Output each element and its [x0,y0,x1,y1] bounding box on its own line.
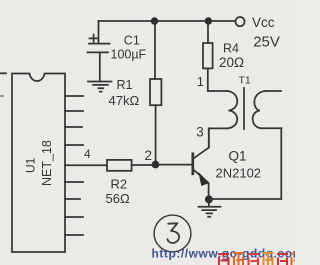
emitter junction dot [205,195,213,203]
Q1 emitter lead [193,169,209,196]
resistor R2 body [107,160,132,171]
svg-text:2N2102: 2N2102 [216,166,262,181]
svg-text:U1: U1 [24,157,38,173]
IC right pin stubs [65,95,83,97]
svg-text:Q1: Q1 [229,149,247,164]
wire T1 pin 3 to collector [208,128,210,147]
watermark red characters [218,253,295,265]
resistor R4 body [203,43,213,68]
wire C1 to ground [99,52,101,81]
svg-text:R2: R2 [111,177,128,192]
svg-text:20Ω: 20Ω [219,55,244,70]
svg-text:4: 4 [84,147,91,161]
capacitor C1 plus sign [90,35,98,43]
wire rail to R1 [154,21,156,79]
wire rail to R4 [207,21,209,43]
svg-text:Vcc: Vcc [252,15,275,30]
ground under C1 [88,82,112,92]
T1 primary winding [227,91,238,128]
T1 core [243,88,245,129]
wire rail to C1 [98,21,100,43]
IC left pin stub [0,72,6,74]
ground under emitter [199,199,221,216]
transistor Q1 base bar [191,154,194,174]
junction dot node at R1 top [151,17,158,24]
Q1 emitter arrowhead [199,173,209,185]
wire R1 to node 2 [155,105,157,161]
svg-text:2: 2 [145,148,153,163]
svg-text:56Ω: 56Ω [106,191,130,206]
junction dot node at R4 top [205,17,212,24]
node 2 junction dot [152,161,160,169]
Vcc terminal circle [235,17,244,26]
T1 secondary winding [253,91,266,128]
svg-text:100µF: 100µF [111,48,147,62]
svg-text:T1: T1 [239,75,251,87]
wire secondary return right side [280,128,282,199]
wire R2 to node 2 [132,164,153,166]
svg-text:47kΩ: 47kΩ [109,93,140,108]
wire R4 to T1 primary pin 1 [207,68,209,91]
T1 primary top lead [208,90,227,92]
svg-text:R1: R1 [117,78,133,92]
left edge speck [0,95,4,97]
wire emitter node to secondary return [212,198,281,200]
svg-text:1: 1 [197,74,204,89]
T1 primary bottom lead [209,127,227,129]
reference bubble circle [154,215,191,252]
Q1 collector lead [193,128,209,159]
svg-text:25V: 25V [253,33,280,50]
svg-text:R4: R4 [223,41,239,55]
T1 secondary top lead [266,90,282,92]
IC U1 body [12,74,65,253]
T1 secondary bottom lead [262,127,282,129]
wire IC pin 4 to R2 [65,164,107,166]
resistor R1 body [150,79,161,105]
capacitor C1 plates [89,43,110,45]
top supply rail wire [99,20,236,22]
figure number 3 [168,223,180,243]
svg-text:C1: C1 [124,33,140,47]
svg-text:NET_18: NET_18 [40,140,54,186]
wire node 2 to base [159,164,192,166]
svg-text:3: 3 [196,125,204,140]
